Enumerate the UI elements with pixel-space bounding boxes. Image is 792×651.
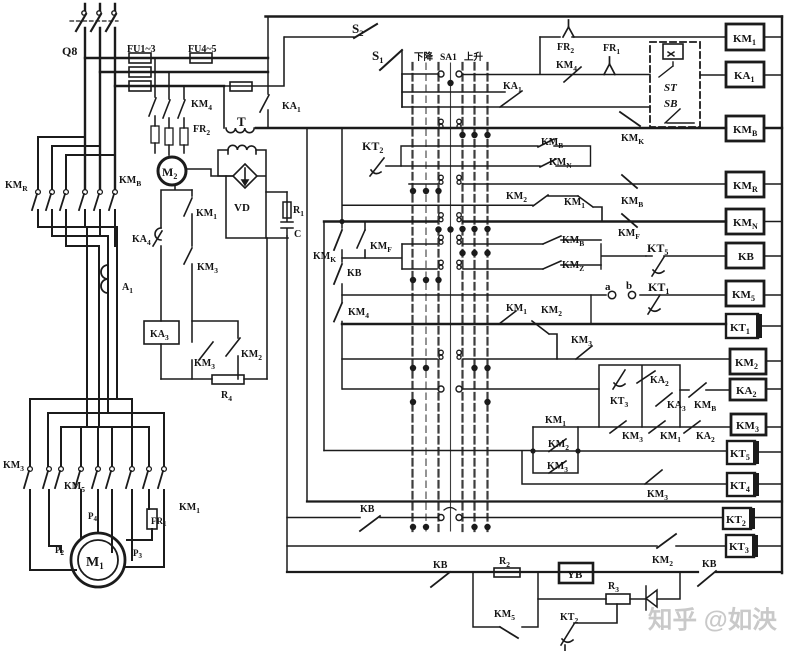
- wire KA3 to bottom: [160, 344, 162, 379]
- contactor contacts KM4: [149, 98, 185, 118]
- svg-text:KB: KB: [360, 504, 375, 515]
- svg-text:KMZ: KMZ: [562, 260, 584, 273]
- svg-text:KM1: KM1: [660, 431, 681, 444]
- contact KA2 seq: [684, 421, 700, 433]
- wire S1 drop: [401, 50, 403, 107]
- fuse FU6 control: [230, 82, 252, 91]
- svg-text:KMN: KMN: [549, 157, 572, 170]
- controller dashed column 2: [425, 63, 427, 531]
- transformer T primary: [226, 128, 254, 133]
- coil box KM2: [730, 349, 766, 374]
- coil box KM5: [726, 281, 764, 306]
- junction dot rail342: [339, 219, 344, 224]
- svg-text:KMB: KMB: [694, 400, 716, 413]
- relay box KA3: [144, 321, 179, 344]
- svg-text:知乎 @如泱: 知乎 @如泱: [648, 606, 777, 634]
- svg-text:KMB: KMB: [562, 235, 584, 248]
- contact KM3 on km2 rung: [576, 346, 592, 359]
- wire M2 feeder 1: [154, 58, 156, 153]
- frame top rail: [266, 15, 783, 17]
- svg-text:KT1: KT1: [648, 280, 669, 296]
- svg-text:R3: R3: [608, 581, 619, 594]
- wire crossover rails: [38, 210, 117, 246]
- controller row 3 line: [402, 106, 650, 108]
- svg-text:KM4: KM4: [191, 99, 212, 112]
- contact KM1 on kt1 rung: [499, 311, 516, 324]
- contact KM4 on KA1 rung: [564, 67, 581, 82]
- svg-text:FR2: FR2: [193, 124, 210, 137]
- rectifier VD frame: [226, 176, 288, 238]
- wire M2 to VD dc link: [186, 169, 233, 176]
- svg-text:Q8: Q8: [62, 44, 77, 58]
- svg-text:KT1: KT1: [730, 322, 750, 336]
- svg-text:KM3: KM3: [736, 420, 759, 434]
- svg-text:KMR: KMR: [733, 180, 758, 194]
- row 389 contact circles: [438, 386, 444, 392]
- row 1 contact: [438, 71, 444, 77]
- svg-text:KA1: KA1: [734, 70, 755, 84]
- row 128 dots: [459, 132, 465, 138]
- contact KM3 block: [549, 461, 566, 473]
- row 221 lifted contact: [439, 213, 462, 222]
- contact KM3 pair: [199, 342, 213, 360]
- svg-text:R4: R4: [221, 390, 232, 403]
- contact KMB interlock: [622, 175, 637, 188]
- svg-text:KB: KB: [433, 560, 448, 571]
- svg-text:KMF: KMF: [618, 228, 640, 241]
- parallel block KM2 KM3: [533, 427, 578, 473]
- svg-text:KA1: KA1: [282, 101, 301, 114]
- svg-text:KM3: KM3: [194, 358, 215, 371]
- coil box KB: [726, 243, 764, 268]
- svg-text:KMF: KMF: [370, 241, 392, 254]
- contact KM2 pair: [226, 338, 240, 356]
- svg-text:KA4: KA4: [132, 234, 151, 247]
- svg-text:P4: P4: [88, 511, 98, 523]
- wire M1 feeder B: [116, 227, 118, 399]
- contact KM3 seq: [610, 421, 626, 433]
- svg-text:KA3: KA3: [667, 400, 686, 413]
- coil box KM3: [731, 414, 766, 435]
- contact KM1 mid arm: [578, 196, 602, 222]
- contact KMB row: [538, 139, 554, 147]
- svg-text:KT2: KT2: [560, 612, 578, 625]
- bypass KM5: [473, 572, 538, 627]
- wire M1 feeder D: [98, 246, 100, 427]
- long rung KMN coil y221.5: [324, 220, 726, 222]
- coil box KMB: [726, 116, 764, 141]
- fuse FU3: [129, 81, 151, 91]
- svg-text:KM3: KM3: [3, 460, 24, 473]
- wire M2 feeder 3: [183, 86, 185, 153]
- switch S2: [285, 36, 354, 38]
- thermal relay FR2 heaters: [151, 126, 188, 145]
- bus 1: [85, 57, 268, 59]
- svg-text:KM3: KM3: [571, 335, 592, 348]
- row 389 dots: [410, 399, 416, 405]
- row 359 lifted contact: [439, 350, 462, 359]
- contact KMB sel: [543, 236, 601, 244]
- contact KMN row: [540, 159, 556, 167]
- contact KA3 inner: [656, 393, 672, 406]
- controller dashed column 6: [473, 63, 475, 531]
- svg-text:KM3: KM3: [197, 262, 218, 275]
- svg-text:KT2: KT2: [362, 139, 383, 155]
- wire row1 to KM1 rung: [539, 37, 541, 74]
- transformer T secondary: [228, 145, 256, 154]
- svg-text:KMK: KMK: [621, 133, 644, 146]
- row 205 line: [343, 204, 533, 206]
- contact KB on rail342: [334, 264, 342, 284]
- right rail: [781, 17, 783, 574]
- current transformer A1: [101, 265, 108, 293]
- contact KMB ka2: [680, 383, 730, 397]
- contact KA2 inner: [637, 371, 655, 383]
- svg-text:b: b: [626, 280, 632, 292]
- wire KM1 branch: [191, 190, 193, 321]
- diode VT: [646, 586, 657, 610]
- svg-text:S2: S2: [352, 21, 363, 38]
- svg-text:KM1: KM1: [506, 303, 527, 316]
- svg-text:ST: ST: [664, 82, 678, 94]
- wire M1 feeder C: [107, 236, 109, 413]
- contact KM1 brake: [184, 198, 192, 216]
- coil box KT5: [727, 441, 755, 464]
- svg-text:KB: KB: [738, 251, 755, 263]
- controller dashed column 3: [437, 63, 439, 531]
- contact KMK interlock: [620, 112, 640, 126]
- controller axis line: [450, 63, 452, 531]
- row 269 lifted contact: [439, 260, 462, 269]
- svg-text:KA2: KA2: [736, 385, 757, 399]
- svg-text:KM5: KM5: [494, 609, 515, 622]
- svg-text:KA2: KA2: [696, 431, 715, 444]
- svg-text:上升: 上升: [464, 51, 484, 63]
- svg-text:R2: R2: [499, 556, 510, 569]
- phase wire L2: [99, 28, 101, 189]
- coil box KT3: [726, 535, 754, 557]
- speed contact bank M1: [24, 467, 166, 488]
- svg-text:KM2: KM2: [506, 191, 527, 204]
- reversing contacts KMB: [79, 190, 117, 210]
- relay KT2 block rows: [401, 146, 591, 166]
- svg-text:VD: VD: [234, 202, 250, 214]
- wire T primary left feed: [223, 86, 225, 128]
- phase wire L1: [84, 28, 86, 189]
- long rung KT1 coil y324: [342, 323, 726, 325]
- wire bank to motor M1: [30, 490, 164, 570]
- rung KM3 coil y427: [533, 426, 731, 428]
- svg-text:KM5: KM5: [732, 289, 755, 303]
- wire VD to R1 branch: [266, 191, 287, 193]
- rung KM5 coil y295: [342, 294, 726, 296]
- rung KT5 coil y451: [324, 450, 727, 453]
- breaker Q8 blades: [76, 11, 116, 31]
- breaker Q8 link dashes: [70, 20, 118, 22]
- svg-text:KMB: KMB: [733, 124, 758, 138]
- coil box KA2: [730, 379, 766, 400]
- svg-text:KT4: KT4: [730, 480, 750, 494]
- contact KMK on rail342: [334, 230, 342, 250]
- svg-text:a: a: [605, 281, 611, 293]
- row 359 dots: [410, 365, 416, 371]
- wire left rail R1C down: [286, 236, 288, 572]
- row 517 glyph: [444, 508, 456, 511]
- svg-text:KM3: KM3: [622, 431, 643, 444]
- svg-text:KM1: KM1: [179, 502, 200, 515]
- phase wire L3: [114, 28, 116, 189]
- fuse FU4: [190, 53, 212, 63]
- fuse FU2: [129, 67, 151, 77]
- svg-text:KM2: KM2: [541, 305, 562, 318]
- brake circuit: wire from M2 down: [161, 186, 192, 321]
- controller row 1 line: [402, 74, 726, 75]
- svg-text:KM4: KM4: [348, 307, 369, 320]
- row 269 dots: [410, 277, 416, 283]
- rung KMR coil y184: [409, 183, 726, 185]
- row 184 lifted contact: [439, 175, 462, 184]
- contact KM2 kt3: [657, 534, 676, 548]
- wire M1 bracket outer: [48, 413, 164, 466]
- controller row 2 line: [402, 91, 505, 93]
- svg-text:KB: KB: [347, 268, 362, 279]
- svg-text:KM2: KM2: [735, 357, 758, 371]
- svg-text:KA2: KA2: [650, 375, 669, 388]
- row 244: [402, 243, 543, 245]
- relay KT3 block: [599, 365, 680, 427]
- long line y503: [307, 500, 782, 502]
- coil box KM1: [726, 24, 764, 50]
- svg-text:KMB: KMB: [541, 137, 563, 150]
- contact KM3 kt4: [645, 470, 662, 484]
- contact KT3 delay: [613, 370, 625, 389]
- svg-text:KM1: KM1: [733, 33, 756, 47]
- svg-text:KT3: KT3: [729, 541, 749, 555]
- svg-text:A1: A1: [122, 282, 133, 295]
- contact KMZ sel: [543, 261, 601, 269]
- motor M1: [71, 533, 125, 587]
- relay contact KA1 on feed rail: [267, 17, 269, 129]
- wire M1 stub contacts: [81, 427, 112, 466]
- bus 2: [100, 71, 268, 73]
- row 221 dots: [435, 226, 441, 232]
- contact KM2 block: [549, 439, 566, 452]
- svg-text:P3: P3: [133, 548, 143, 560]
- svg-text:R1: R1: [293, 205, 304, 218]
- contact KM1 seq: [649, 421, 665, 433]
- button ST: [663, 44, 683, 59]
- row 184 dots: [410, 188, 416, 194]
- svg-text:KM1: KM1: [196, 208, 217, 221]
- wire row bracket: [401, 74, 403, 107]
- svg-text:KM4: KM4: [556, 60, 577, 73]
- coil box KT4: [727, 473, 755, 496]
- contact KB kt2: [360, 516, 380, 531]
- dashed box ST SB: [650, 42, 700, 127]
- contact KT2 delay bottom: [561, 604, 617, 651]
- coil box KA1: [726, 62, 764, 87]
- svg-text:KMB: KMB: [119, 175, 141, 188]
- wire M1 feeder A: [86, 227, 88, 427]
- svg-text:T: T: [237, 114, 246, 129]
- rectifier VD diamond: [233, 164, 257, 188]
- svg-text:KMR: KMR: [5, 180, 28, 193]
- terminal b: [628, 291, 635, 298]
- contact KA1 selfhold: [500, 91, 522, 107]
- contact KB bottom left: [431, 572, 450, 587]
- wire M1 bracket outer0: [30, 399, 132, 466]
- reversing contacts KMR: [32, 190, 68, 210]
- svg-text:YB: YB: [567, 569, 583, 581]
- svg-text:KMN: KMN: [733, 217, 758, 231]
- left rail 324: [323, 222, 325, 451]
- wire 591 drop: [590, 295, 592, 324]
- controller dashed column 1: [411, 63, 413, 531]
- row 1 position dot: [447, 80, 453, 86]
- terminal a: [608, 291, 616, 299]
- coil box KMN: [726, 209, 764, 234]
- svg-text:KB: KB: [702, 559, 717, 570]
- contact KMF interlock: [622, 214, 637, 227]
- row 269: [402, 268, 543, 270]
- resistor R3: [606, 594, 630, 604]
- svg-text:KM2: KM2: [241, 349, 262, 362]
- wire secondary to bridge: [218, 150, 266, 238]
- rung KM2 coil y359: [342, 358, 730, 360]
- relay contact KA4: [153, 228, 162, 246]
- long rung KMB coil y128: [256, 127, 782, 129]
- svg-text:KM5: KM5: [64, 481, 85, 494]
- rung KA2 coil y389: [343, 388, 599, 390]
- parallel pair KM3 KM2: [192, 321, 238, 379]
- brake coil YB: [559, 563, 593, 583]
- resistor R2: [494, 568, 520, 577]
- breaker Q8 incoming phase stubs: [85, 4, 115, 10]
- rung KT2 coil y517.5: [287, 517, 723, 519]
- svg-text:C: C: [294, 229, 301, 240]
- contact KM3 brake: [184, 248, 192, 264]
- left rail 306: [306, 128, 308, 502]
- controller dashed column 5: [461, 63, 463, 531]
- row 244 lifted contact: [439, 235, 462, 244]
- fuse FU1: [129, 53, 151, 63]
- coil box KMR: [726, 172, 764, 197]
- contact KM2 mid arm: [533, 195, 578, 206]
- wire R4 to VD: [266, 238, 268, 379]
- svg-text:P2: P2: [55, 545, 65, 557]
- contact KM5 bypass: [500, 627, 518, 638]
- contact KMF fwd: [357, 230, 365, 258]
- row 244 dots: [459, 250, 465, 256]
- wire M2 feeder 2: [168, 72, 170, 155]
- svg-text:KM1: KM1: [545, 415, 566, 428]
- svg-text:KT2: KT2: [726, 514, 746, 528]
- wire fuse to S2 feed: [224, 37, 284, 86]
- bottom rail y572: [287, 571, 782, 573]
- row 128 lifted contact: [439, 119, 462, 128]
- row 517 dots: [410, 524, 416, 530]
- capacitor C: [281, 192, 293, 236]
- bracket 601: [601, 244, 646, 269]
- contact KM2 branch down: [532, 321, 557, 359]
- motor M2: [158, 157, 186, 185]
- svg-text:M2: M2: [162, 165, 177, 181]
- svg-text:KT5: KT5: [730, 448, 750, 462]
- svg-text:M1: M1: [86, 555, 104, 571]
- svg-text:KT5: KT5: [647, 241, 668, 257]
- coil box KT2: [723, 508, 751, 529]
- row 517 contact circles: [438, 515, 444, 521]
- rung KT3 coil y546: [287, 545, 726, 547]
- svg-text:FR2: FR2: [557, 42, 574, 55]
- svg-text:KMB: KMB: [621, 196, 643, 209]
- branch R3 diode: [538, 572, 680, 599]
- wire M1 bracket middle: [61, 427, 149, 466]
- svg-text:FR1: FR1: [603, 43, 620, 56]
- contact KB bottom right: [698, 571, 716, 586]
- svg-text:KM3: KM3: [647, 489, 668, 502]
- svg-text:S1: S1: [372, 48, 383, 65]
- wire phase taps to reverse contacts: [38, 137, 115, 189]
- svg-text:KM2: KM2: [652, 555, 673, 568]
- left rail 342: [341, 128, 343, 389]
- svg-text:KA1: KA1: [503, 81, 522, 94]
- svg-text:SB: SB: [664, 98, 677, 110]
- thermal contact FR2: [563, 20, 574, 37]
- contact KM4 on rail342: [334, 303, 342, 322]
- svg-text:下降: 下降: [414, 51, 434, 63]
- switch S1: [380, 50, 402, 70]
- svg-text:SA1: SA1: [440, 53, 457, 63]
- resistor R1: [283, 202, 291, 218]
- resistor R4: [161, 378, 267, 380]
- controller dashed column 7: [486, 63, 488, 531]
- rung KM1 coil: [540, 36, 726, 38]
- tee row 258: [342, 244, 402, 269]
- rung KT4 coil y484: [522, 451, 727, 484]
- coil box KT1: [726, 314, 758, 338]
- thermal relay FR1: [147, 509, 157, 529]
- svg-text:KT3: KT3: [610, 396, 628, 409]
- svg-text:KA3: KA3: [150, 329, 169, 342]
- bus 3: [115, 85, 224, 87]
- thermal contact FR1: [604, 57, 615, 75]
